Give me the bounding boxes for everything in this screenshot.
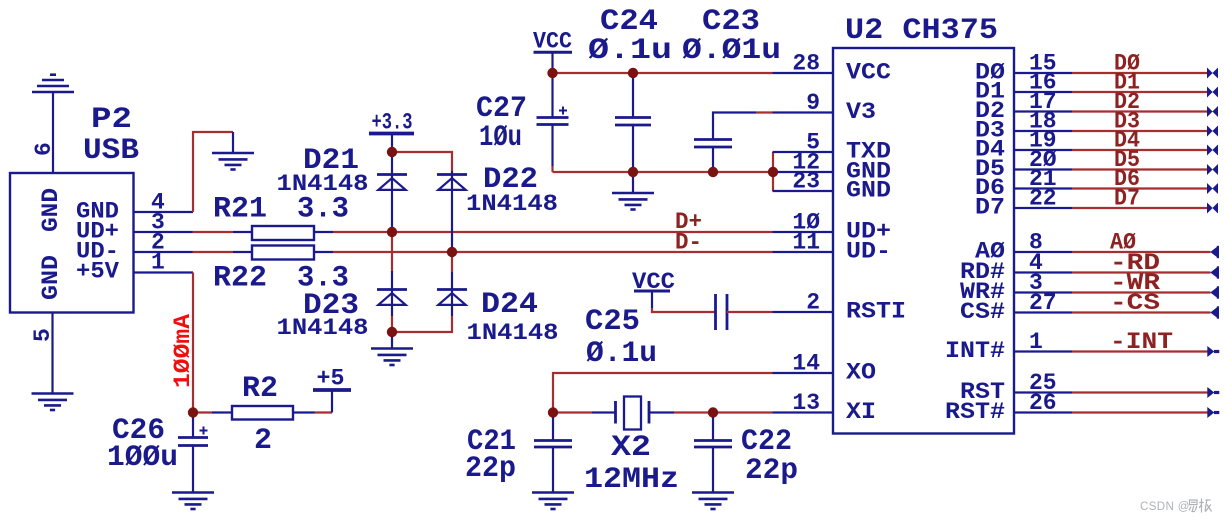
wire D22 to UD- line: [451, 190, 453, 252]
ground under C21: [532, 493, 574, 510]
U2 pin 2 (RSTI): [773, 290, 907, 325]
ground stem under diodes: [391, 332, 393, 349]
capacitor C22: [712, 413, 714, 441]
wire U2 pin 14 (XO) to crystal node (jog): [553, 373, 773, 413]
resistor R2: [212, 411, 232, 413]
U2 pin 17 (D2): [975, 89, 1072, 124]
P2 pin 4 stub: [134, 211, 194, 213]
wire -WR line: [1072, 291, 1211, 293]
U2 pin 13 (XI): [773, 390, 877, 425]
wire C27 bottom corner to gnd rail: [551, 166, 553, 172]
junction XO / X2 / C21: [548, 407, 558, 417]
capacitor C27 (polarized): [551, 73, 553, 118]
wire tying U2 pins 5/12/23: [772, 152, 774, 191]
U2 pin 20 (D5): [975, 147, 1072, 182]
connector P2 body: [10, 173, 134, 313]
P2 pin 2 stub: [134, 251, 193, 253]
wire C25 to U2 pin 2 (RSTI): [727, 311, 773, 313]
diode D24: [451, 272, 453, 290]
output arrow RST: [1207, 387, 1214, 398]
wire UD+ (D+) R21 to U2 pin 10: [333, 231, 773, 233]
junction gnd rail / C24: [628, 167, 638, 177]
U2 pin 11 (UD-): [773, 230, 892, 265]
U2 pin 8 (A0): [975, 230, 1072, 265]
svg-text:UD-: UD-: [846, 239, 891, 265]
U2 pin 3 (WR#): [960, 270, 1072, 305]
ground stem under C24: [632, 172, 634, 193]
U2 pin 27 (CS#): [960, 290, 1072, 325]
wire RST# line: [1072, 411, 1208, 413]
wire D3 bus line: [1072, 130, 1208, 132]
bidirectional arrow D4: [1207, 145, 1218, 156]
diode D22: [451, 171, 453, 175]
U2 pin 15 (D0): [975, 51, 1072, 86]
capacitor C26: [192, 413, 194, 438]
U2 pin 28 (VCC): [773, 51, 892, 86]
U2 pin 16 (D1): [975, 70, 1072, 105]
ground (top, near P2): [212, 153, 254, 170]
input arrow A0: [1210, 247, 1217, 258]
wire VCC to C25: [652, 308, 716, 312]
svg-text:D7: D7: [1114, 186, 1140, 212]
U2 pin 26 (RST#): [945, 390, 1072, 425]
wire D21 to UD+ line: [391, 190, 393, 232]
U2 pin 23 (GND): [773, 169, 892, 204]
wire R2 to +5 symbol: [315, 411, 333, 413]
crystal X2: [592, 411, 616, 413]
capacitor C24: [632, 73, 634, 118]
svg-text:+5V: +5V: [76, 259, 119, 285]
junction UD+ / D21-D23: [387, 227, 397, 237]
input arrow -WR: [1210, 287, 1217, 298]
wire P2 pin4 to ground (up-right jog): [193, 132, 233, 212]
wire C23 to U2 pin 9 (V3): [756, 111, 773, 113]
svg-text:1: 1: [151, 250, 165, 276]
wire +3.3 bar to node: [391, 134, 393, 175]
svg-text:5: 5: [30, 328, 56, 342]
svg-text:INT#: INT#: [945, 338, 1005, 364]
svg-text:26: 26: [1029, 390, 1057, 416]
wire D4 bus line: [1072, 149, 1208, 151]
wire node to R2: [193, 411, 212, 413]
ground under C22: [692, 493, 734, 510]
svg-text:1N4148: 1N4148: [467, 320, 559, 346]
svg-text:2: 2: [806, 290, 820, 316]
U2 pin 19 (D4): [975, 128, 1072, 163]
svg-text:D24: D24: [481, 288, 538, 322]
resistor R22: [233, 251, 252, 253]
resistor R21: [233, 231, 252, 233]
bidirectional arrow D7: [1207, 203, 1218, 214]
svg-text:9: 9: [806, 90, 820, 116]
svg-text:XI: XI: [846, 399, 876, 425]
svg-text:CSDN @: CSDN @: [1140, 501, 1190, 513]
P2 pin 5 stub: [51, 313, 53, 394]
svg-text:1N4148: 1N4148: [466, 191, 558, 217]
junction XI / X2 / C22: [708, 407, 718, 417]
wire X2 right to U2 pin 13 (XI): [674, 411, 773, 413]
bidirectional arrow D6: [1207, 183, 1218, 194]
svg-text:22: 22: [1029, 186, 1057, 212]
input arrow -CS: [1210, 307, 1217, 318]
watermark glyph ban: [1199, 499, 1211, 513]
U2 pin 4 (RD#): [960, 250, 1072, 285]
svg-text:14: 14: [792, 351, 820, 377]
ground under C26: [172, 493, 214, 510]
wire D24 to ground node (jog): [451, 305, 453, 316]
svg-text:+5: +5: [317, 366, 345, 392]
svg-text:RST#: RST#: [945, 399, 1005, 425]
wire P2 pin1 (+5V) down to C26/R2 node: [192, 273, 194, 413]
svg-text:D7: D7: [975, 195, 1005, 221]
P2 pin 6 stub: [52, 92, 54, 173]
capacitor C25 (horizontal): [714, 294, 717, 330]
ground stem near P2 pin4: [232, 132, 234, 153]
svg-text:VCC: VCC: [846, 60, 891, 86]
svg-text:22p: 22p: [745, 454, 798, 488]
wire +3.3 node to D22 (jog): [392, 152, 452, 171]
svg-text:Ø.1u: Ø.1u: [586, 337, 657, 371]
U2 pin 5 (TXD): [773, 130, 892, 165]
svg-text:RSTI: RSTI: [846, 299, 906, 325]
svg-text:R22: R22: [213, 262, 267, 296]
junction gnd rail / pin12: [768, 167, 778, 177]
wire D6 bus line: [1072, 187, 1208, 189]
svg-text:2: 2: [254, 424, 272, 458]
wire crystal node to X2 left: [553, 411, 592, 413]
wire D1 bus line: [1072, 91, 1208, 93]
svg-text:CS#: CS#: [960, 299, 1005, 325]
svg-text:-INT: -INT: [1110, 329, 1173, 355]
svg-text:Ø.Ø1u: Ø.Ø1u: [682, 34, 781, 68]
svg-text:P2: P2: [91, 103, 132, 137]
ground at P2 pin 5: [32, 394, 74, 411]
U2 pin 18 (D3): [975, 109, 1072, 144]
junction VCC rail / C24: [628, 68, 638, 78]
svg-text:1ØØmA: 1ØØmA: [170, 314, 196, 388]
wire A0 line: [1072, 251, 1211, 253]
wire -CS line: [1072, 311, 1211, 313]
diode D23: [391, 271, 393, 290]
capacitor C23: [713, 113, 756, 140]
P2 pin 3 stub: [134, 231, 193, 233]
svg-text:XO: XO: [846, 360, 876, 386]
svg-text:13: 13: [792, 390, 820, 416]
svg-text:28: 28: [792, 51, 820, 77]
wire UD- (D-) R22 to U2 pin 11: [333, 251, 773, 253]
input arrow -RD: [1210, 267, 1217, 278]
junction +5V / C26 / R2: [188, 407, 198, 417]
svg-text:3.3: 3.3: [297, 193, 349, 227]
svg-text:Ø.1u: Ø.1u: [588, 34, 672, 68]
svg-text:12MHz: 12MHz: [584, 463, 679, 497]
diode D21: [377, 175, 407, 190]
wire gnd rail to U2 pins 12/23: [553, 171, 774, 173]
bidirectional arrow D3: [1207, 126, 1218, 137]
wire D5 bus line: [1072, 168, 1208, 170]
bidirectional arrow D5: [1207, 164, 1218, 175]
U2 pin 25 (RST): [960, 370, 1072, 405]
svg-text:R2: R2: [242, 372, 278, 406]
svg-text:-CS: -CS: [1110, 290, 1160, 316]
P2 pin 1 stub: [134, 271, 194, 273]
svg-text:27: 27: [1029, 290, 1057, 316]
wire VCC rail to U2 pin 28: [553, 72, 773, 74]
junction +3.3 node: [387, 147, 397, 157]
ground under diode chain: [371, 349, 413, 366]
junction VCC rail / C27: [547, 68, 557, 78]
wire UD- node down (red): [451, 252, 453, 272]
ground at P2 pin 6 (inverted): [32, 75, 74, 92]
U2 pin 21 (D6): [975, 166, 1072, 201]
bidirectional arrow D2: [1207, 106, 1218, 117]
svg-text:R21: R21: [213, 193, 267, 227]
output arrow -INT: [1207, 346, 1214, 357]
svg-text:23: 23: [792, 169, 820, 195]
svg-text:U2 CH375: U2 CH375: [845, 14, 998, 48]
wire D0 bus line: [1072, 72, 1208, 74]
svg-text:6: 6: [31, 142, 57, 156]
svg-text:C25: C25: [585, 305, 640, 339]
svg-text:USB: USB: [83, 134, 139, 168]
svg-text:GND: GND: [846, 178, 891, 204]
ground under C24: [612, 193, 654, 210]
svg-text:VCC: VCC: [533, 29, 572, 55]
wire -RD line: [1072, 271, 1211, 273]
wire -INT line: [1072, 350, 1208, 352]
wire D7 bus line: [1072, 207, 1208, 209]
svg-text:11: 11: [792, 230, 820, 256]
svg-text:V3: V3: [846, 99, 876, 125]
wire D23 to ground node: [391, 305, 393, 316]
U2 pin 1 (INT#): [945, 329, 1072, 364]
bidirectional arrow D1: [1207, 87, 1218, 98]
wire UD+ node down (red): [391, 232, 393, 271]
svg-text:1N4148: 1N4148: [277, 315, 369, 341]
svg-text:1Øu: 1Øu: [479, 121, 522, 155]
wire UD- P2 to R22: [193, 251, 234, 253]
op-amp U2 CH375 body: [833, 48, 1014, 434]
U2 pin 10 (UD+): [773, 210, 892, 245]
U2 pin 12 (GND): [773, 150, 892, 185]
U2 pin 9 (V3): [773, 90, 877, 125]
U2 pin 22 (D7): [975, 186, 1072, 221]
junction diode gnd node: [387, 327, 397, 337]
U2 pin 14 (XO): [773, 351, 877, 386]
bidirectional arrow D0: [1207, 68, 1218, 79]
svg-text:22p: 22p: [465, 452, 516, 486]
junction gnd rail / C23: [708, 167, 718, 177]
svg-text:1: 1: [1029, 329, 1043, 355]
svg-text:X2: X2: [611, 431, 651, 465]
output arrow RST#: [1207, 407, 1214, 418]
junction UD- / D22-D24: [447, 247, 457, 257]
wire D2 bus line: [1072, 110, 1208, 112]
watermark glyph yi: [1189, 500, 1197, 512]
wire RST line: [1072, 391, 1208, 393]
svg-text:1N4148: 1N4148: [277, 171, 369, 197]
svg-text:D-: D-: [675, 230, 702, 256]
svg-text:1ØØu: 1ØØu: [107, 441, 178, 475]
svg-text:GND: GND: [38, 188, 64, 232]
capacitor C21: [552, 413, 554, 441]
wire UD+ P2 to R21: [193, 231, 234, 233]
svg-text:GND: GND: [38, 255, 64, 300]
